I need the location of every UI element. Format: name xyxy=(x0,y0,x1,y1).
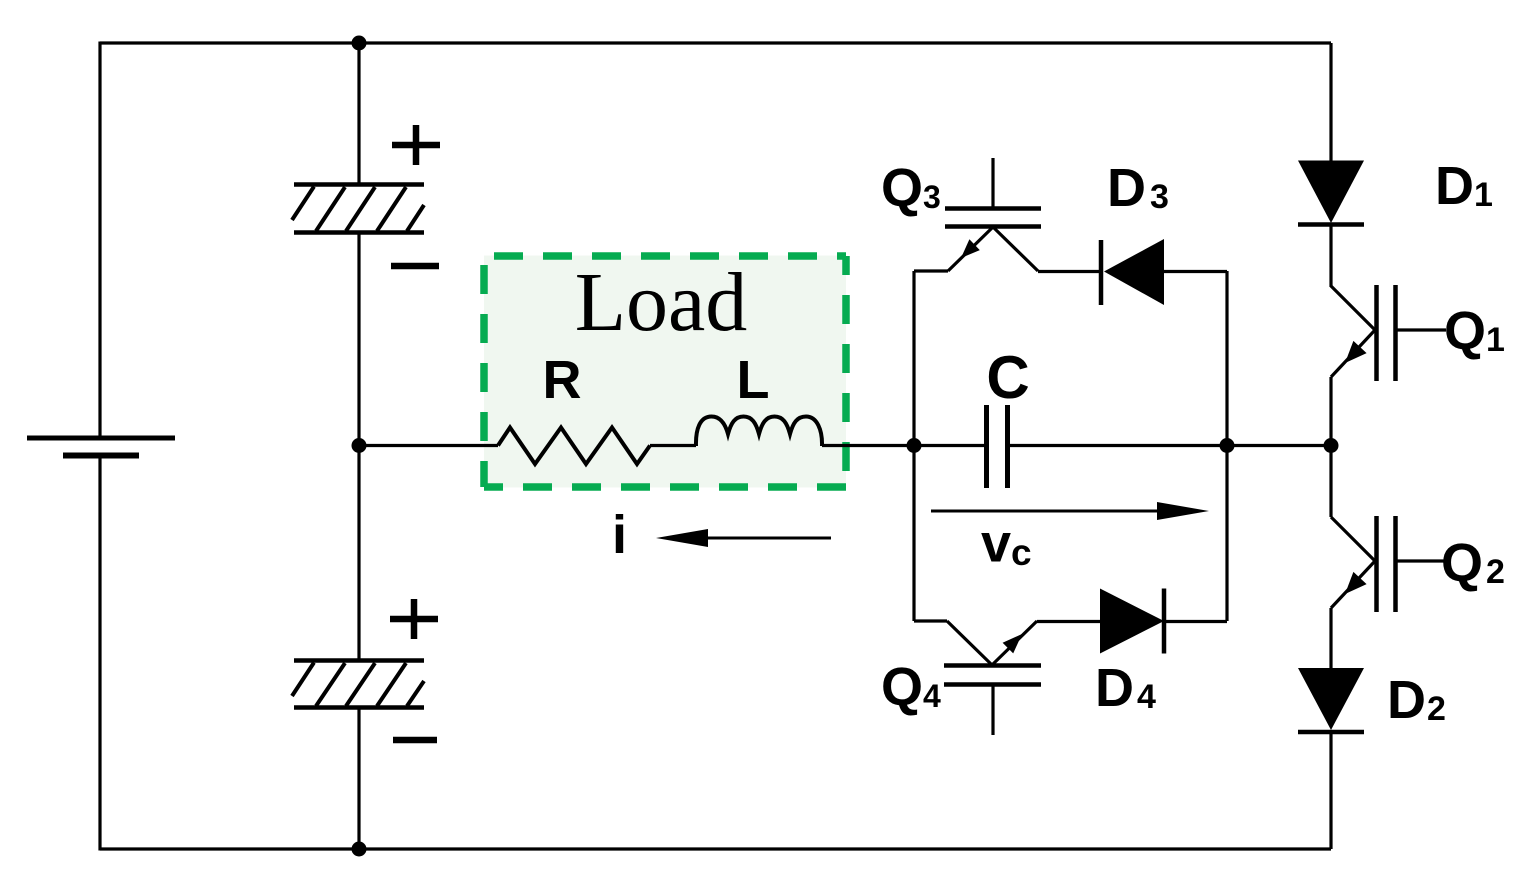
wire mid horizontal left xyxy=(359,444,498,447)
wire between R and L xyxy=(650,444,696,447)
load box (dashed green) xyxy=(484,256,846,488)
node right rail xyxy=(1324,438,1339,453)
svg-text:L: L xyxy=(737,350,770,410)
capacitor C xyxy=(987,405,1008,488)
resistor R xyxy=(498,428,650,465)
diode D3 xyxy=(1038,239,1227,305)
snubber left leg xyxy=(912,271,915,621)
battery E xyxy=(27,438,175,456)
minus sign C1 xyxy=(391,263,439,270)
capacitor C2 (hatched) xyxy=(292,661,424,708)
svg-text:C: C xyxy=(986,344,1029,411)
snubber right leg xyxy=(1225,271,1228,621)
wire mid rail bottom xyxy=(357,707,360,849)
plus sign C2 xyxy=(390,599,438,639)
node mid left xyxy=(352,438,367,453)
svg-text:R: R xyxy=(543,350,582,410)
diode D2 xyxy=(1298,668,1364,849)
transistor Q2 (IGBT) xyxy=(1331,445,1446,668)
transistor Q4 (IGBT) xyxy=(914,621,1041,735)
wire top bus xyxy=(100,41,1331,44)
node bottom mid xyxy=(352,842,367,857)
transistor Q1 (IGBT) xyxy=(1331,285,1446,445)
transistor Q3 (IGBT) xyxy=(914,158,1041,271)
wire left rail lower xyxy=(98,456,101,851)
svg-text:i: i xyxy=(612,505,627,565)
current arrow i xyxy=(656,529,831,547)
wire L to C xyxy=(822,444,986,447)
wire left rail upper xyxy=(98,42,101,439)
node snubber left xyxy=(907,438,922,453)
diode D1 xyxy=(1298,161,1364,288)
capacitor C1 (hatched) xyxy=(292,185,424,233)
wire C to right rail xyxy=(1008,444,1331,447)
node top mid xyxy=(352,36,367,51)
wire bottom bus xyxy=(100,847,1331,850)
right rail top xyxy=(1329,43,1332,161)
wire mid rail top xyxy=(357,43,360,184)
arrow vc xyxy=(931,502,1209,520)
plus sign C1 xyxy=(392,125,440,165)
node snubber right xyxy=(1220,438,1235,453)
inductor L xyxy=(696,417,822,447)
diode D4 xyxy=(1037,589,1227,654)
minus sign C2 xyxy=(393,737,437,744)
wire mid rail middle xyxy=(357,232,360,660)
svg-text:Load: Load xyxy=(575,256,748,349)
